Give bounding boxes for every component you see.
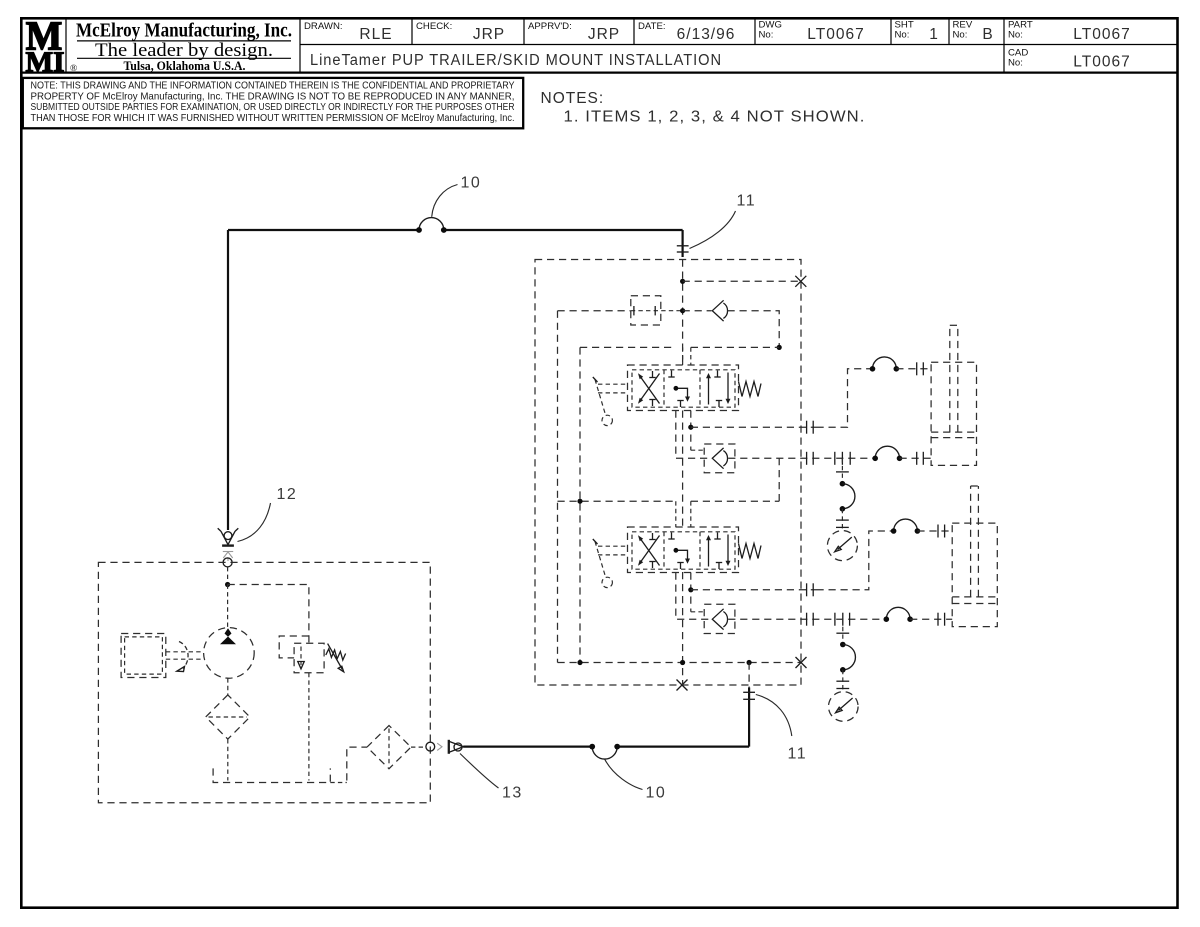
node: V2 box crossing xyxy=(577,499,582,504)
return drop to bottom port xyxy=(748,663,750,688)
svg-text:13: 13 xyxy=(502,785,523,802)
directional valve V1 xyxy=(593,365,761,426)
svg-text:6/13/96: 6/13/96 xyxy=(677,26,736,43)
quick disconnect 12 (male half, solid) xyxy=(218,528,239,545)
title block texts xyxy=(304,20,1131,71)
relief spring xyxy=(326,649,346,660)
test port union xyxy=(631,296,661,325)
wire: relief pilot branch xyxy=(228,585,309,644)
svg-text:No:: No: xyxy=(895,30,910,41)
valve V1 sub-box top edge xyxy=(580,346,676,348)
pressure filter F1 xyxy=(227,678,229,695)
cylinder C2 xyxy=(952,486,997,627)
svg-text:DRAWN:: DRAWN: xyxy=(304,21,343,32)
CV3 outlet to cylinder 2 cap end xyxy=(728,618,886,620)
pressure gauge G2 drop xyxy=(842,619,844,644)
svg-text:10: 10 xyxy=(646,785,667,802)
wire: return riser to valve block xyxy=(748,688,750,747)
svg-text:LT0067: LT0067 xyxy=(1073,54,1130,71)
quick disconnect 12 (female half on tank unit, faint) xyxy=(223,552,233,562)
V2 work lines to check CV3 xyxy=(676,573,712,620)
wire: top supply line horizontal xyxy=(228,229,419,231)
plug X on bottom edge xyxy=(677,680,688,691)
wire: pump outlet line xyxy=(227,585,229,628)
relief pilot box xyxy=(279,636,309,658)
svg-text:NOTES:: NOTES: xyxy=(541,90,605,107)
pump outlet solid triangles xyxy=(225,628,232,636)
leader for label 12 xyxy=(238,503,271,542)
check valve CV1 xyxy=(712,300,727,321)
inner manifold box A left edge xyxy=(557,311,559,663)
filter drain to tank xyxy=(227,739,229,780)
notes text xyxy=(541,90,866,126)
relief valve RV1 xyxy=(294,643,324,673)
svg-text:1. ITEMS 1, 2, 3, & 4 NOT SHOW: 1. ITEMS 1, 2, 3, & 4 NOT SHOWN. xyxy=(564,109,866,126)
suction strainer F2 (item 13 filter) xyxy=(367,726,411,769)
hose up to cylinder 2 rod end xyxy=(817,531,894,590)
rod-end line out xyxy=(691,589,817,591)
plugged gauge port line xyxy=(683,280,801,282)
reservoir tank xyxy=(213,768,330,782)
hose up to cylinder 1 rod end xyxy=(817,369,873,427)
wire: bottom return line xyxy=(463,745,592,747)
node: gauge-port branch xyxy=(680,279,685,284)
svg-text:PROPERTY OF McElroy Manufactur: PROPERTY OF McElroy Manufacturing, Inc. … xyxy=(31,91,515,102)
check valve CV1 outlet xyxy=(728,311,780,348)
strainer outlet xyxy=(411,746,426,748)
check valve CV3 block xyxy=(704,604,735,633)
node: pump inlet junction xyxy=(227,567,229,585)
svg-text:1: 1 xyxy=(929,26,939,43)
svg-text:LT0067: LT0067 xyxy=(807,26,864,43)
leader for label 10 (bottom) xyxy=(605,759,643,789)
V1 feeder stubs xyxy=(682,347,684,365)
port ticks 11 (top) xyxy=(677,245,689,247)
wire: left vertical supply drop xyxy=(227,230,229,530)
svg-text:RLE: RLE xyxy=(359,26,392,43)
svg-text:11: 11 xyxy=(788,746,808,763)
svg-text:SUBMITTED OUTSIDE PARTIES FOR: SUBMITTED OUTSIDE PARTIES FOR EXAMINATIO… xyxy=(31,102,515,113)
MMI logo xyxy=(26,13,65,79)
node: cylinder 1 rod-end branch xyxy=(688,425,693,430)
valve assembly enclosure box xyxy=(535,260,801,686)
V2 feeder stubs xyxy=(675,501,677,527)
svg-text:B: B xyxy=(982,26,993,43)
port ticks xyxy=(806,421,808,434)
svg-text:JRP: JRP xyxy=(473,26,505,43)
manifold supply line xyxy=(558,310,631,312)
svg-text:LT0067: LT0067 xyxy=(1073,26,1130,43)
svg-text:Tulsa, Oklahoma U.S.A.: Tulsa, Oklahoma U.S.A. xyxy=(124,59,246,73)
V1 crossed-arrows position xyxy=(638,371,660,406)
company name block xyxy=(70,21,292,75)
svg-text:®: ® xyxy=(70,63,77,74)
V1 return spring xyxy=(739,382,762,397)
node: joins valve V1 sub-box xyxy=(777,345,782,350)
proprietary note box xyxy=(23,78,523,128)
svg-text:12: 12 xyxy=(277,486,298,503)
pressure gauge G1 xyxy=(827,531,857,561)
rotation arrow xyxy=(179,642,188,669)
leader for label 11 (top) xyxy=(690,211,736,249)
suction pipe xyxy=(347,747,367,780)
check valve CV2 block xyxy=(704,444,735,473)
pressure gauge G2 xyxy=(829,692,859,722)
svg-text:NOTE: THIS DRAWING AND THE INF: NOTE: THIS DRAWING AND THE INFORMATION C… xyxy=(31,81,515,92)
rod-end line out xyxy=(691,426,817,428)
V1 work lines to check CV2 xyxy=(676,411,712,459)
V2 crossed-arrows position xyxy=(638,533,660,568)
plug X on right edge (T line) xyxy=(796,657,807,668)
hydraulic pump P1 xyxy=(204,628,255,679)
svg-text:MI: MI xyxy=(26,48,65,79)
title block grid xyxy=(20,18,1178,73)
directional valve V2 xyxy=(593,527,761,588)
V2 return spring xyxy=(739,544,762,559)
svg-text:LineTamer PUP TRAILER/SKID MOU: LineTamer PUP TRAILER/SKID MOUNT INSTALL… xyxy=(310,52,722,69)
V1 sub-box left edge xyxy=(579,347,581,662)
leader for label 13 xyxy=(460,754,499,789)
female coupler half (faint) xyxy=(437,743,442,750)
svg-text:CHECK:: CHECK: xyxy=(416,21,452,32)
V2 lever actuator xyxy=(598,545,628,547)
drive shaft xyxy=(166,651,204,653)
coupler circle on tank unit edge xyxy=(223,558,232,567)
wire: valve block inlet drop xyxy=(681,230,683,257)
CV2 return edge xyxy=(778,458,780,501)
V1 lever actuator xyxy=(598,383,628,385)
V2 blocked-centre position xyxy=(668,533,690,570)
svg-text:No:: No: xyxy=(953,30,968,41)
svg-text:APPRV'D:: APPRV'D: xyxy=(528,21,572,32)
line to check valve CV1 xyxy=(683,310,712,312)
hose coupling jump 10 (top) xyxy=(419,218,444,230)
valve V2 sub-box top edge xyxy=(558,500,676,502)
quick disconnect 13 (male half, solid) xyxy=(449,740,463,754)
pressure gauge G1 drop xyxy=(841,458,843,483)
coupler circle on unit edge (return) xyxy=(426,742,435,751)
hose coupling jump 10 (bottom) xyxy=(592,747,617,760)
svg-text:THAN THOSE FOR WHICH IT WAS FU: THAN THOSE FOR WHICH IT WAS FURNISHED WI… xyxy=(31,113,515,124)
node: cylinder 2 rod-end branch xyxy=(688,587,693,592)
leader for label 11 (bottom) xyxy=(756,695,792,737)
V1 parallel-arrows position xyxy=(706,371,731,408)
V1 blocked-centre position xyxy=(668,371,690,408)
tank return line T xyxy=(558,662,802,664)
svg-text:DATE:: DATE: xyxy=(638,21,666,32)
svg-text:No:: No: xyxy=(1008,30,1023,41)
port ticks 11 (bottom) xyxy=(743,691,755,693)
plug X on right edge (top) xyxy=(795,276,806,287)
node: P junction at union line xyxy=(680,308,685,313)
electric motor M1 xyxy=(121,634,166,678)
CV2 outlet to cylinder 1 cap end xyxy=(728,457,875,459)
svg-text:JRP: JRP xyxy=(588,26,620,43)
relief adjust arrow xyxy=(328,644,343,670)
svg-text:No:: No: xyxy=(1008,58,1023,69)
power unit enclosure box xyxy=(98,562,430,802)
leader for label 10 (top) xyxy=(432,185,458,217)
V2 parallel-arrows position xyxy=(706,533,731,570)
relief drain line xyxy=(308,673,310,781)
svg-text:11: 11 xyxy=(737,193,757,210)
svg-text:McElroy Manufacturing, Inc.: McElroy Manufacturing, Inc. xyxy=(76,21,292,42)
cylinder C1 xyxy=(931,325,976,465)
main pressure line P xyxy=(682,260,684,366)
svg-text:10: 10 xyxy=(461,175,482,192)
svg-text:No:: No: xyxy=(759,30,774,41)
